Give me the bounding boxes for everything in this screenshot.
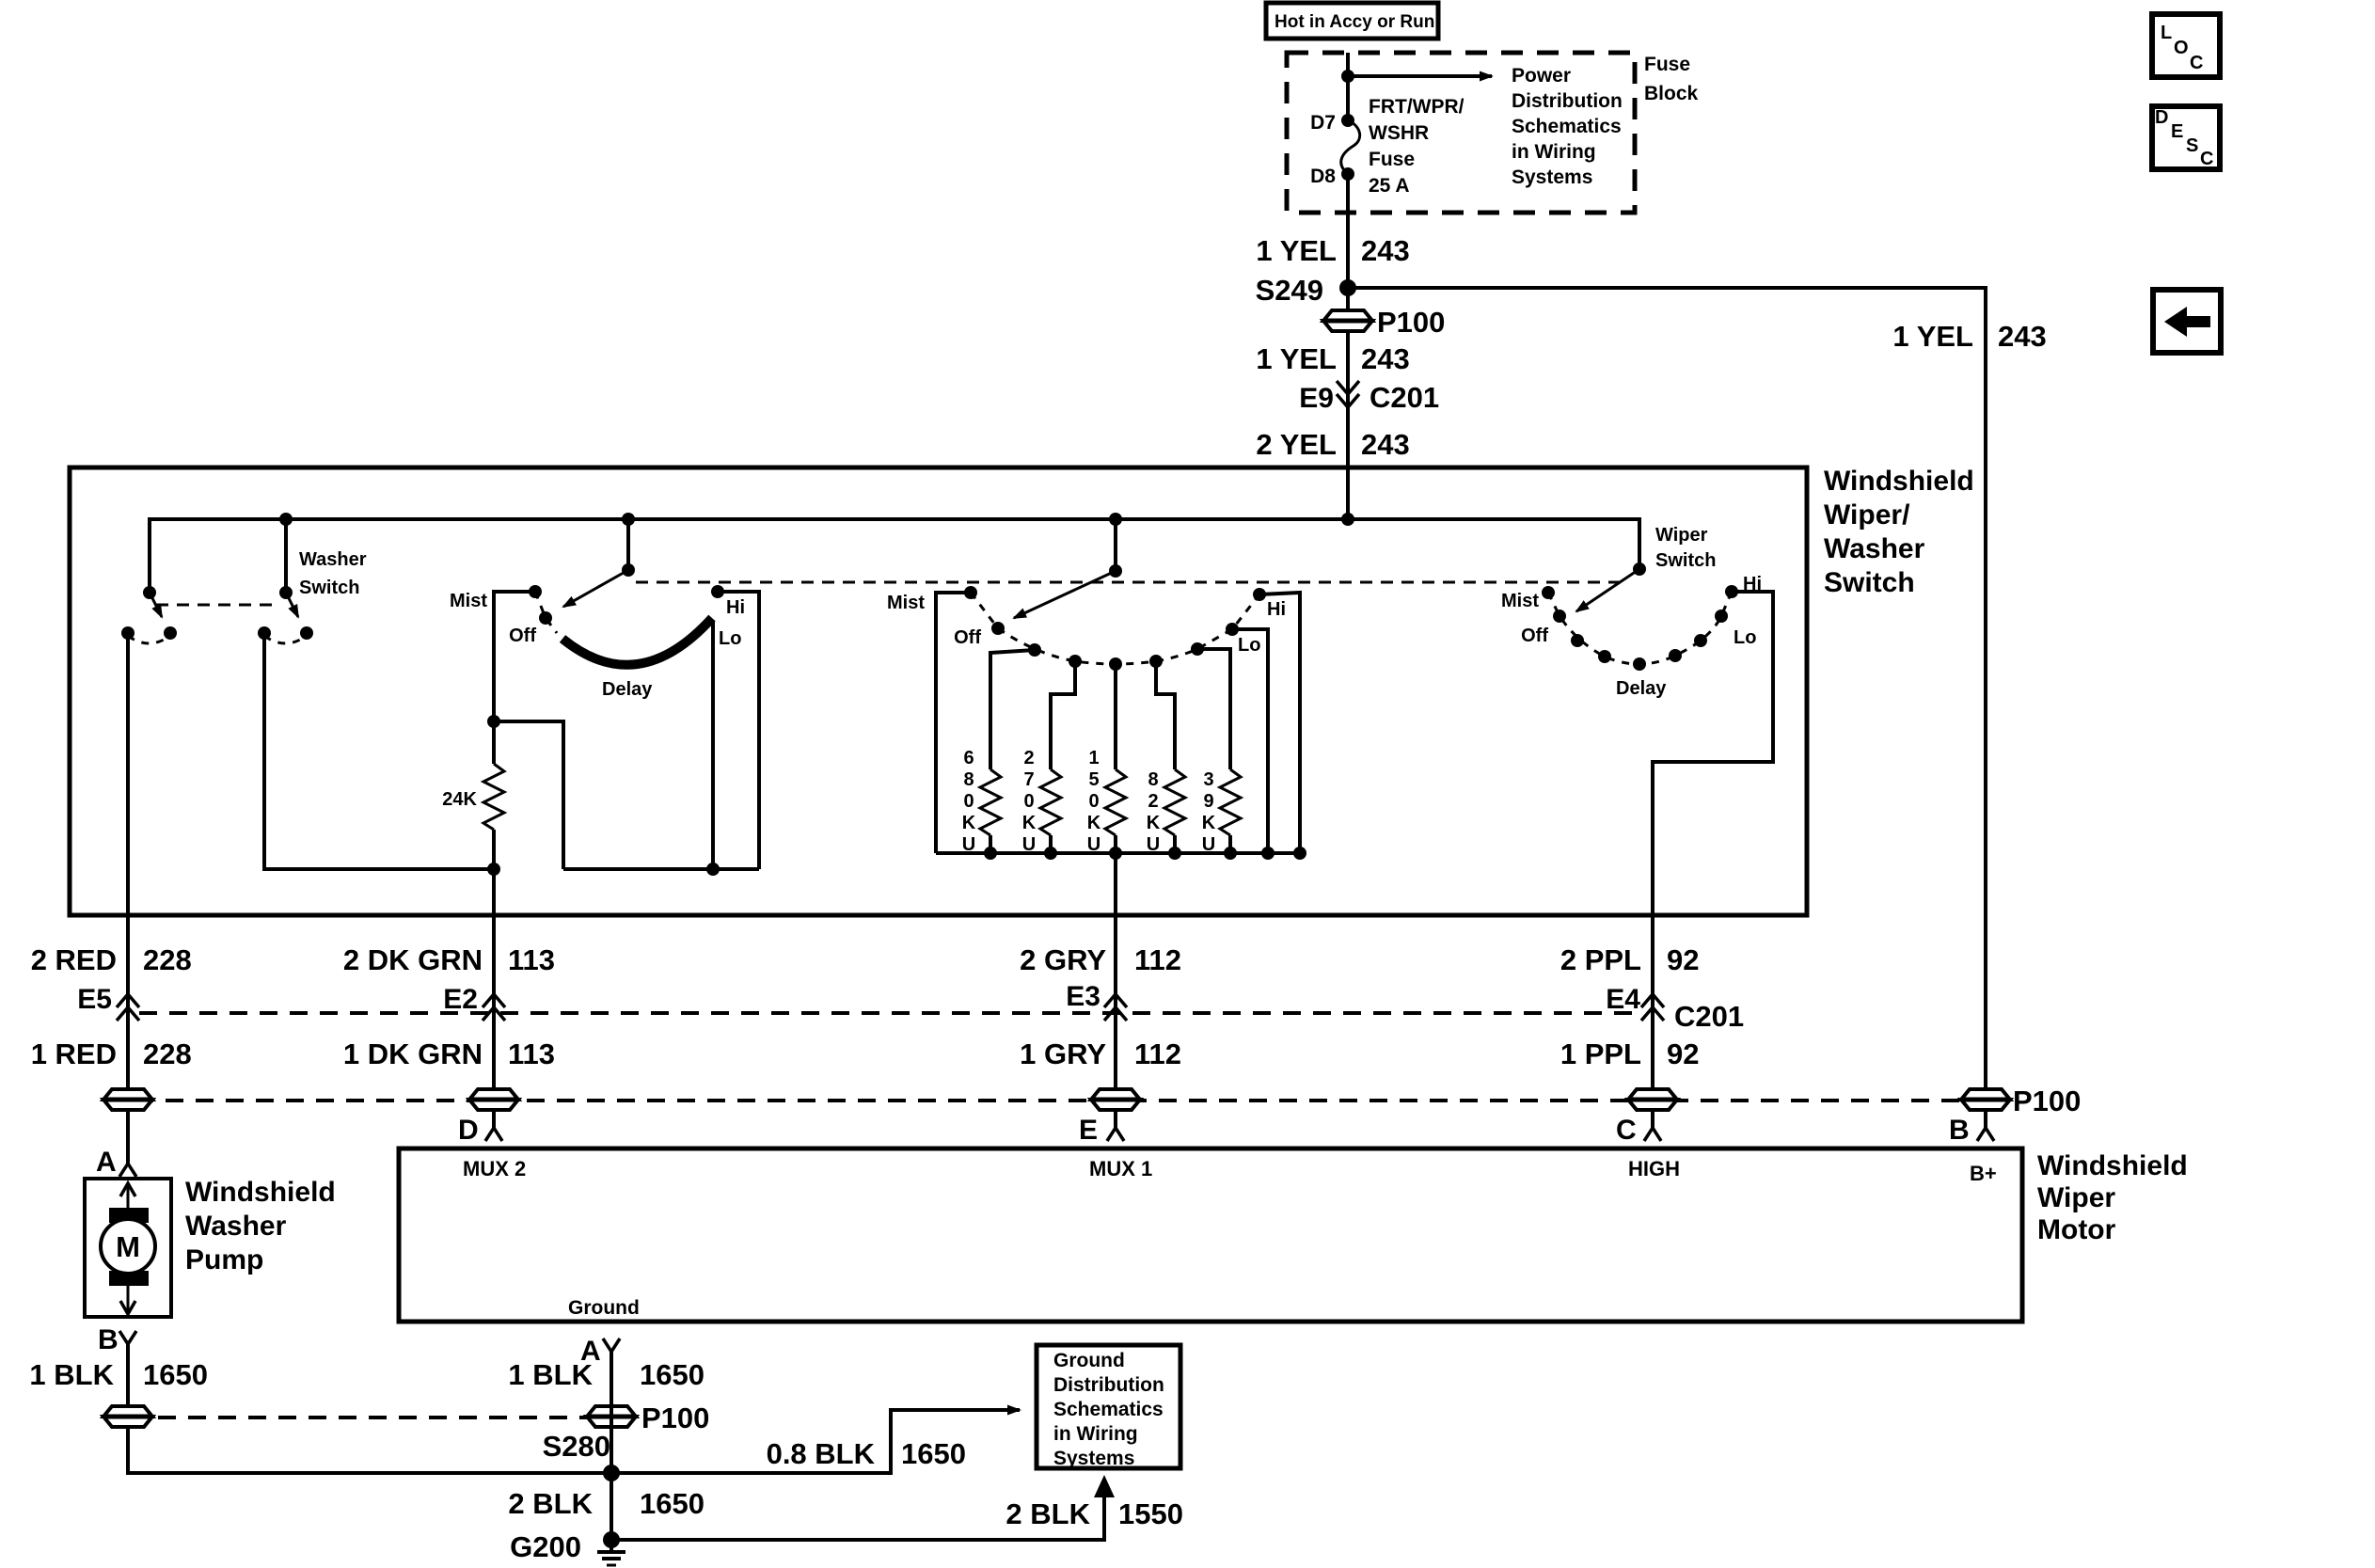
connector P100 grommet (top) (1323, 310, 1372, 331)
wire: tap 150K (1114, 664, 1117, 769)
svg-text:E5: E5 (77, 984, 112, 1015)
svg-text:Wiper: Wiper (2037, 1182, 2115, 1213)
svg-text:6: 6 (963, 748, 974, 768)
component box: Windshield Wiper/Washer Switch (70, 467, 1807, 915)
svg-text:1 YEL: 1 YEL (1256, 342, 1337, 375)
svg-text:112: 112 (1134, 1037, 1181, 1070)
svg-text:0.8 BLK: 0.8 BLK (767, 1437, 876, 1470)
wire: mux output down (1114, 853, 1117, 1128)
svg-text:8: 8 (1148, 769, 1158, 790)
contact Off (sec1) (539, 611, 552, 625)
SECTION: top fuse block (1266, 3, 1699, 288)
DESC button (2152, 106, 2220, 169)
svg-text:K: K (1147, 813, 1161, 833)
svg-text:Mist: Mist (450, 591, 487, 611)
svg-text:C: C (1616, 1115, 1637, 1146)
svg-text:Fuse: Fuse (1644, 54, 1690, 75)
SECTION: bottom (29, 1148, 2187, 1565)
resistor 24K (483, 764, 504, 830)
svg-text:D: D (2155, 107, 2168, 128)
svg-text:0: 0 (1023, 791, 1034, 812)
svg-text:1 PPL: 1 PPL (1560, 1037, 1641, 1070)
svg-text:Distribution: Distribution (1053, 1374, 1164, 1396)
svg-text:FRT/WPR/: FRT/WPR/ (1369, 96, 1465, 118)
power feed label box "Hot in Accy or Run" (1266, 3, 1438, 39)
svg-text:E4: E4 (1606, 984, 1640, 1015)
svg-text:E3: E3 (1066, 981, 1100, 1012)
wire: pump ground lead (128, 1344, 1017, 1473)
svg-text:1 YEL: 1 YEL (1892, 320, 1973, 353)
svg-text:B+: B+ (1970, 1162, 1997, 1185)
svg-text:Off: Off (1521, 626, 1548, 646)
svg-text:Switch: Switch (1655, 550, 1716, 571)
SECTION: label rows (31, 943, 2082, 1178)
svg-text:S280: S280 (543, 1430, 610, 1463)
svg-text:Wiper/: Wiper/ (1824, 499, 1910, 531)
svg-text:Off: Off (954, 627, 981, 648)
svg-text:Ground: Ground (1053, 1350, 1125, 1371)
svg-text:M: M (116, 1230, 140, 1263)
node: junction in fuse block (1341, 70, 1354, 83)
svg-text:112: 112 (1134, 943, 1181, 976)
svg-text:E: E (1079, 1115, 1098, 1146)
wire: 24K tap (494, 721, 563, 869)
svg-text:D: D (458, 1115, 479, 1146)
svg-text:2 BLK: 2 BLK (1005, 1497, 1090, 1530)
svg-text:C: C (2190, 53, 2203, 73)
svg-text:1 BLK: 1 BLK (508, 1358, 593, 1391)
svg-text:243: 243 (1361, 428, 1410, 461)
svg-text:Block: Block (1644, 83, 1699, 104)
wire: 2 BLK 1550 to ground distribution (611, 1497, 1104, 1540)
svg-text:D7: D7 (1310, 112, 1336, 134)
grommet P100 at YEL wire (1961, 1089, 2010, 1110)
resistor 270K (1040, 769, 1061, 835)
svg-text:Motor: Motor (2037, 1214, 2116, 1245)
wire: tap 270K (1051, 661, 1075, 769)
grommet P100 at PPL wire (1628, 1089, 1677, 1110)
contact Hi (sec1) (711, 585, 724, 598)
svg-text:Hot in Accy or Run: Hot in Accy or Run (1275, 12, 1434, 32)
svg-text:K: K (1087, 813, 1101, 833)
svg-text:D8: D8 (1310, 166, 1336, 187)
svg-text:243: 243 (1361, 342, 1410, 375)
wire: rail of section2 (936, 851, 1300, 855)
svg-text:9: 9 (1203, 791, 1213, 812)
svg-text:MUX 2: MUX 2 (463, 1157, 526, 1180)
svg-text:HIGH: HIGH (1628, 1157, 1680, 1180)
svg-text:in Wiring: in Wiring (1053, 1423, 1138, 1445)
wire: S249 down (1346, 288, 1350, 519)
contact Mist (sec3) (1542, 586, 1555, 599)
svg-text:1650: 1650 (143, 1358, 208, 1391)
wire: tap 82K (1156, 661, 1175, 769)
wire: Hi bracket (sec2) (1259, 593, 1300, 853)
wire: washer sw output to pump (126, 633, 130, 1164)
resistor 39K (1220, 769, 1241, 835)
svg-text:P100: P100 (641, 1402, 709, 1434)
svg-text:1650: 1650 (640, 1358, 705, 1391)
svg-text:1 GRY: 1 GRY (1020, 1037, 1106, 1070)
svg-text:1 DK GRN: 1 DK GRN (343, 1037, 483, 1070)
svg-text:Lo: Lo (1238, 635, 1260, 656)
svg-text:Fuse: Fuse (1369, 149, 1415, 170)
svg-text:Delay: Delay (1616, 678, 1667, 699)
svg-text:2 RED: 2 RED (31, 943, 117, 976)
wiper switch section 2 (mux resistor ladder) (1114, 519, 1117, 571)
svg-text:K: K (1022, 813, 1037, 833)
svg-text:B: B (98, 1324, 119, 1355)
svg-text:L: L (2161, 23, 2172, 43)
contact Off (sec2) (991, 622, 1005, 635)
svg-text:E2: E2 (443, 984, 478, 1015)
wire: Lo bracket (sec2) (1232, 629, 1268, 853)
svg-text:Washer: Washer (1824, 533, 1925, 564)
svg-text:Windshield: Windshield (185, 1177, 336, 1208)
fuse block dashed outline (1287, 53, 1635, 213)
svg-text:Lo: Lo (719, 628, 741, 649)
svg-text:A: A (96, 1147, 117, 1178)
fuse FRT/WPR/WSHR 25A element (1341, 120, 1360, 174)
wire: S249 branch to right (1348, 288, 1986, 1128)
resistor 680K (980, 769, 1001, 835)
svg-text:92: 92 (1667, 1037, 1699, 1070)
svg-text:Wiper: Wiper (1655, 525, 1708, 546)
wire: washer sw pole2 output (264, 633, 492, 869)
wire: tap 680K (990, 650, 1035, 769)
svg-text:1550: 1550 (1118, 1497, 1183, 1530)
wire: rail of section1 (563, 867, 759, 871)
grommet P100 at pump BLK wire (103, 1406, 152, 1427)
wire: tap 39K (1197, 649, 1230, 769)
svg-text:1: 1 (1088, 748, 1099, 768)
svg-text:Ground: Ground (568, 1297, 640, 1319)
svg-text:1 BLK: 1 BLK (29, 1358, 114, 1391)
svg-text:243: 243 (1998, 320, 2047, 353)
svg-text:B: B (1949, 1115, 1970, 1146)
svg-text:Washer: Washer (185, 1211, 287, 1242)
svg-text:5: 5 (1088, 769, 1099, 790)
svg-text:S249: S249 (1256, 274, 1323, 307)
svg-text:Off: Off (509, 626, 536, 646)
wiper switch section 3 (high) (1633, 562, 1646, 576)
svg-text:Washer: Washer (299, 549, 367, 570)
svg-text:0: 0 (1088, 791, 1099, 812)
SECTION: switch box (70, 466, 1974, 1164)
svg-text:2 YEL: 2 YEL (1256, 428, 1337, 461)
svg-text:P100: P100 (1377, 306, 1445, 339)
contact Mist (sec1) (494, 592, 535, 764)
svg-text:C201: C201 (1370, 381, 1439, 414)
svg-text:Power: Power (1512, 65, 1571, 87)
connector P100 dashed line (bottom) (128, 1416, 611, 1419)
svg-text:G200: G200 (510, 1530, 581, 1563)
svg-text:P100: P100 (2013, 1085, 2081, 1117)
svg-text:C201: C201 (1674, 1000, 1744, 1033)
wire: Lo / delay end down (sec1) (711, 621, 715, 869)
delay resistive band (sec1) (562, 618, 712, 665)
selector dashed arc (sec2) (971, 593, 1259, 664)
svg-text:2 DK GRN: 2 DK GRN (343, 943, 483, 976)
mechanical link of wiper switch (636, 581, 1620, 584)
wire: arrow to Power Distribution (1348, 74, 1492, 78)
svg-text:WSHR: WSHR (1369, 122, 1429, 144)
selector dashed arc (sec3) (1548, 592, 1732, 664)
svg-text:24K: 24K (442, 789, 477, 810)
svg-text:25 A: 25 A (1369, 175, 1410, 197)
svg-text:E: E (2171, 121, 2183, 142)
svg-text:Distribution: Distribution (1512, 90, 1623, 112)
svg-text:3: 3 (1203, 769, 1213, 790)
svg-text:243: 243 (1361, 234, 1410, 267)
svg-text:1650: 1650 (640, 1487, 705, 1520)
svg-text:C: C (2200, 149, 2213, 169)
component box: Windshield Washer Pump (85, 1179, 171, 1317)
svg-text:Pump: Pump (185, 1244, 263, 1275)
svg-text:1 YEL: 1 YEL (1256, 234, 1337, 267)
svg-text:Lo: Lo (1734, 627, 1756, 648)
contact Off (sec3) (1553, 610, 1566, 623)
svg-text:228: 228 (143, 1037, 192, 1070)
svg-text:K: K (962, 813, 976, 833)
SECTION: right icons (2152, 14, 2221, 353)
svg-text:Delay: Delay (602, 679, 653, 700)
svg-text:Schematics: Schematics (1512, 116, 1622, 137)
svg-text:Switch: Switch (1824, 567, 1915, 598)
svg-text:O: O (2174, 38, 2189, 58)
svg-text:Hi: Hi (1267, 599, 1286, 620)
LOC button (2152, 14, 2220, 77)
wire: Hi output (sec3) (1653, 592, 1773, 1128)
svg-text:8: 8 (963, 769, 974, 790)
svg-text:113: 113 (508, 943, 555, 976)
svg-text:Hi: Hi (726, 597, 745, 618)
wire: Hi contact bracket (sec1) (718, 592, 759, 869)
wire: dk grn output down (492, 869, 496, 1128)
svg-text:Systems: Systems (1053, 1448, 1134, 1469)
contact Hi (sec3) (1725, 585, 1738, 598)
washer switch pole 2 (284, 519, 288, 593)
svg-text:2 BLK: 2 BLK (508, 1487, 593, 1520)
contact dots on arc (sec2) (1028, 643, 1041, 657)
SECTION: main feed wires (1256, 234, 2047, 1128)
box: Ground Distribution Schematics in Wiring Systems (1037, 1345, 1180, 1468)
connector P100 dashed line (105, 1099, 2007, 1102)
svg-text:Mist: Mist (1501, 591, 1539, 611)
washer switch pole 1 (143, 586, 156, 599)
svg-text:0: 0 (963, 791, 974, 812)
washer pump motor symbol (127, 1183, 130, 1313)
svg-text:2 GRY: 2 GRY (1020, 943, 1106, 976)
svg-text:1 RED: 1 RED (31, 1037, 117, 1070)
svg-text:228: 228 (143, 943, 192, 976)
resistor 150K (1105, 769, 1126, 835)
wire: fuse output down (1346, 174, 1350, 288)
wire: motor ground lead (610, 1352, 613, 1540)
component box: Windshield Wiper Motor (399, 1148, 2022, 1322)
grommet P100 at RED wire (103, 1089, 152, 1110)
grommet P100 at GRY wire (1091, 1089, 1140, 1110)
svg-text:K: K (1202, 813, 1216, 833)
grommet P100 at DK GRN wire (469, 1089, 518, 1110)
svg-text:113: 113 (508, 1037, 555, 1070)
wire: feed into fuse block (1346, 53, 1350, 120)
svg-text:92: 92 (1667, 943, 1699, 976)
node: bus junctions (279, 513, 293, 526)
svg-text:Mist: Mist (887, 593, 925, 613)
svg-text:in Wiring: in Wiring (1512, 141, 1596, 163)
svg-text:2 PPL: 2 PPL (1560, 943, 1641, 976)
svg-text:S: S (2186, 135, 2198, 156)
svg-text:MUX 1: MUX 1 (1089, 1157, 1152, 1180)
svg-text:E9: E9 (1299, 383, 1334, 414)
contact dots on arc (sec3) (1571, 634, 1584, 647)
back-arrow button (2153, 290, 2221, 353)
svg-text:Windshield: Windshield (1824, 466, 1974, 497)
svg-text:2: 2 (1023, 748, 1034, 768)
svg-text:2: 2 (1148, 791, 1158, 812)
svg-text:Switch: Switch (299, 578, 359, 598)
contact Mist (sec2) (936, 593, 971, 853)
svg-text:7: 7 (1023, 769, 1034, 790)
wire: internal supply bus (150, 519, 1639, 593)
wiper switch section 1 (delay rheostat) (626, 519, 630, 570)
svg-text:Systems: Systems (1512, 166, 1592, 188)
resistor 82K (1164, 769, 1185, 835)
connector C201 dashed line (139, 1011, 1637, 1015)
svg-text:1650: 1650 (901, 1437, 966, 1470)
mechanical link of washer switch (156, 604, 279, 607)
svg-text:Windshield: Windshield (2037, 1150, 2188, 1181)
svg-text:Schematics: Schematics (1053, 1399, 1164, 1420)
grommet P100 at motor BLK wire (587, 1406, 636, 1427)
